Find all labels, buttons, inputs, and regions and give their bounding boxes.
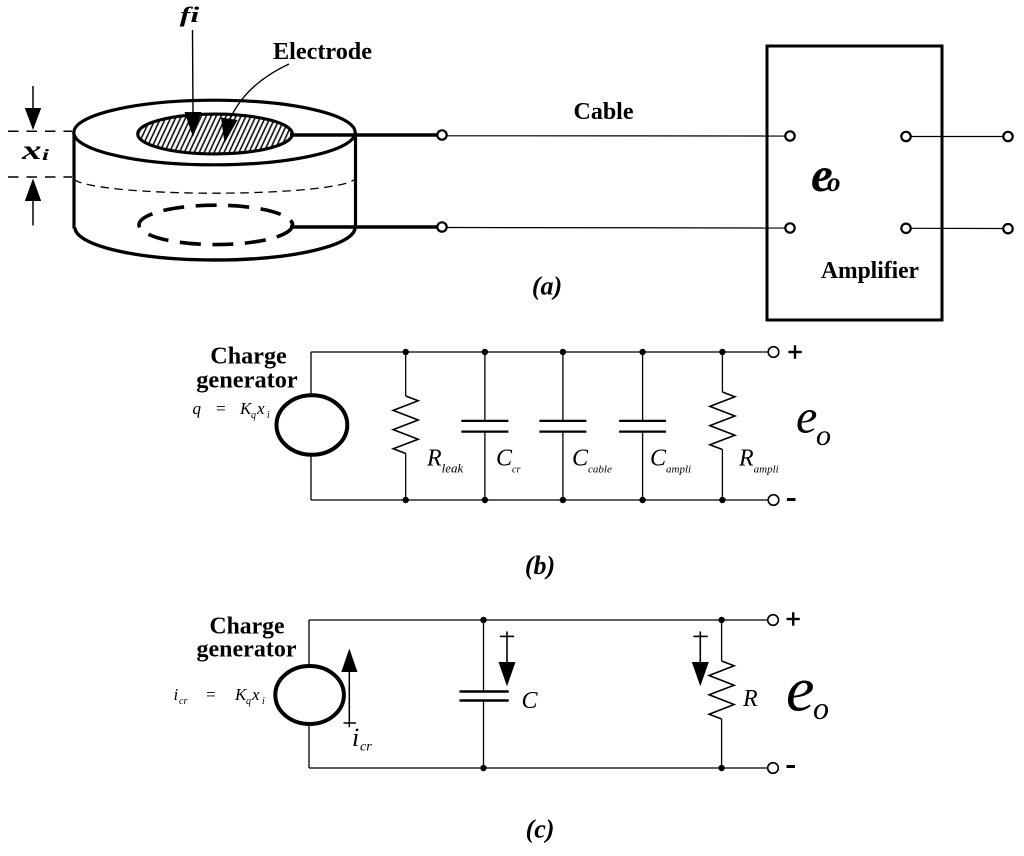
svg-text:q: q [246, 696, 251, 707]
svg-text:Amplifier: Amplifier [821, 258, 919, 284]
svg-text:Electrode: Electrode [273, 39, 372, 65]
svg-text:R: R [742, 686, 758, 712]
svg-text:=: = [215, 399, 226, 418]
svg-text:generator: generator [196, 368, 298, 394]
svg-text:q: q [251, 410, 256, 421]
svg-text:Cable: Cable [574, 99, 634, 125]
svg-text:C: C [522, 688, 539, 714]
svg-text:Charge: Charge [210, 344, 287, 370]
svg-text:i: i [262, 696, 265, 707]
svg-text:generator: generator [197, 637, 297, 663]
svg-text:i: i [42, 147, 50, 164]
svg-text:x: x [251, 685, 260, 704]
svg-text:i: i [267, 410, 270, 421]
svg-text:(c): (c) [526, 815, 555, 844]
svg-text:cr: cr [360, 740, 372, 755]
svg-text:x: x [256, 399, 265, 418]
svg-text:cr: cr [179, 696, 187, 707]
svg-text:e: e [796, 391, 817, 444]
svg-text:fi: fi [180, 2, 201, 27]
svg-text:=: = [205, 685, 216, 704]
svg-text:o: o [813, 690, 829, 726]
svg-text:q: q [193, 399, 202, 418]
svg-text:(b): (b) [525, 551, 555, 580]
svg-text:i: i [352, 723, 359, 752]
svg-text:i: i [174, 685, 179, 704]
svg-text:o: o [816, 419, 831, 452]
svg-text:(a): (a) [532, 272, 562, 301]
svg-text:e: e [786, 654, 814, 725]
svg-text:x: x [21, 135, 42, 165]
svg-text:o: o [827, 167, 841, 197]
